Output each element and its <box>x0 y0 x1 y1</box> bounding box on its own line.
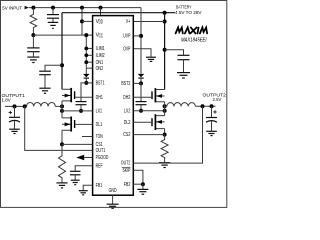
resistor R_CS2 (current sense) <box>161 135 168 163</box>
node: output2 cap tap <box>210 104 214 108</box>
capacitor C2 (5V bypass) <box>52 8 54 15</box>
node: VCC rail junction <box>84 33 88 37</box>
svg-text:DL1: DL1 <box>96 122 103 128</box>
svg-text:FB2: FB2 <box>124 182 131 188</box>
svg-text:V+: V+ <box>126 19 131 25</box>
svg-text:SKIP: SKIP <box>123 168 131 174</box>
wire DL1 <box>75 123 93 125</box>
wire OUT2 sense <box>133 106 202 163</box>
capacitor C_OUT1 (polarized) <box>14 106 16 117</box>
wire 5V to IC top <box>100 8 102 16</box>
resistor R_CS1 (current sense) <box>59 144 66 182</box>
node: UVP junction <box>139 34 143 38</box>
svg-text:PGOOD: PGOOD <box>96 155 109 161</box>
wire FB2 <box>133 183 143 185</box>
svg-text:FB1: FB1 <box>96 183 103 189</box>
svg-text:ON2: ON2 <box>96 66 104 72</box>
node: BST1 junction <box>84 81 88 85</box>
wire ILIM1 <box>86 47 92 49</box>
wire ILIM2 <box>86 54 92 56</box>
node: V+ junction <box>163 20 167 24</box>
wire 5V down to VDD/VCC <box>81 8 83 35</box>
wire FB1 to ground <box>83 185 92 190</box>
node: VDD junction <box>80 19 84 23</box>
capacitor C_OUT2 (polarized) <box>211 106 213 117</box>
node: OUT2 sense tap <box>201 104 205 108</box>
outer frame <box>1 1 227 208</box>
transistor Q2 (low-side, converter 1) <box>62 117 75 132</box>
transistor Q3 (high-side, converter 2) <box>152 88 165 102</box>
5V input arrow <box>25 6 29 10</box>
SKIP overline <box>122 166 131 168</box>
ground (R_CS2) <box>159 162 170 164</box>
wire BST1 <box>81 83 93 101</box>
node: R1 bottom / VCC wire <box>31 33 35 37</box>
rail: VCC/ILIM/ON vertical <box>85 35 87 74</box>
capacitor C_BST1 <box>76 101 87 103</box>
inductor L1 <box>5 105 27 107</box>
capacitor C_REF <box>70 170 81 172</box>
svg-text:MAX1845EEI: MAX1845EEI <box>181 37 207 43</box>
node: BST1 cap to LX1 <box>79 109 83 113</box>
PGOOD output arrow <box>76 155 84 161</box>
node: 5V rail / IC top feed <box>99 6 103 10</box>
capacitor C_IN1 <box>39 70 51 72</box>
ground (R_CS1) <box>56 182 67 184</box>
svg-text:REF: REF <box>96 163 103 169</box>
node: 5V rail / C2 junction <box>51 6 55 10</box>
node: battery cap 2 tap <box>163 48 167 52</box>
battery vertical right (V+ / converter 2 input) <box>164 13 166 90</box>
node: BST2 junction <box>139 81 143 85</box>
MAXIM logo <box>176 28 208 34</box>
wire CS2 <box>133 134 164 136</box>
wire DL2 <box>133 121 152 123</box>
svg-text:LX2: LX2 <box>124 108 131 114</box>
node: LX1 / inductor <box>60 104 64 108</box>
wire 5V down right side (UVP feed) <box>140 8 142 74</box>
svg-text:BATTERY: BATTERY <box>176 4 192 10</box>
wire to battery input cap (right) <box>165 50 184 55</box>
node: LX1 wire <box>60 109 64 113</box>
svg-text:DH2: DH2 <box>123 95 130 101</box>
ground (OVP) <box>146 56 156 58</box>
svg-text:CC: CC <box>99 33 104 39</box>
wire ON1 <box>86 61 92 63</box>
wire Q1-Q2 vertical <box>61 101 63 118</box>
svg-text:ILIM2: ILIM2 <box>96 53 105 59</box>
svg-text:BST2: BST2 <box>121 81 130 87</box>
node: LX2 / inductor <box>163 104 167 108</box>
wire ON2 <box>86 67 92 69</box>
wire SKIP to FB2 <box>133 170 143 184</box>
svg-text:DL2: DL2 <box>124 120 131 126</box>
svg-text:4.5V TO 28V: 4.5V TO 28V <box>175 10 202 16</box>
wire Q2 source to CS1 <box>61 130 63 144</box>
svg-text:DD: DD <box>99 20 104 26</box>
wire DH2 <box>133 96 152 98</box>
wire TON <box>82 136 93 138</box>
node: 5V rail / R1 junction <box>31 6 35 10</box>
wire OVP to ground <box>133 49 151 57</box>
diode D1 (BST1) <box>83 74 90 77</box>
svg-text:TON: TON <box>96 134 103 140</box>
wire VCC from R1 to IC <box>33 34 92 36</box>
battery rail <box>62 12 175 14</box>
node: OUT1 sense tap <box>23 104 27 108</box>
svg-text:1.8V: 1.8V <box>2 98 12 104</box>
ground (C_OUT2) <box>206 130 217 132</box>
IC U1 MAX1845EEI box <box>93 16 134 196</box>
ground (FB2) <box>137 188 148 190</box>
svg-text:OVP: OVP <box>123 46 131 52</box>
node: CS2 junction <box>163 133 167 137</box>
wire FB2 to ground <box>142 184 144 189</box>
capacitor C_BST2 <box>136 101 147 103</box>
transistor Q1 (high-side, converter 1) <box>62 88 75 102</box>
node: LX2 wire <box>163 109 167 113</box>
svg-text:GND: GND <box>109 188 117 194</box>
node: battery rail / V+ drop <box>163 11 167 15</box>
node: output1 cap tap <box>13 104 17 108</box>
wire BST2 <box>133 83 141 101</box>
svg-text:ILIM1: ILIM1 <box>96 46 105 52</box>
wire REF <box>75 166 92 171</box>
svg-text:OUT1: OUT1 <box>96 148 106 154</box>
ground (C_OUT1) <box>9 128 20 130</box>
svg-text:2.5V: 2.5V <box>213 97 223 103</box>
wire to battery input cap (left) <box>45 65 62 71</box>
wire V+ to IC <box>133 21 164 23</box>
resistor R1 (VCC filter) <box>30 8 37 35</box>
svg-text:OUT2: OUT2 <box>121 161 131 167</box>
inductor L2 <box>165 105 167 107</box>
wire VDD to IC <box>82 20 93 22</box>
ground (C_VCC) <box>27 56 39 58</box>
wire DH1 <box>75 96 93 98</box>
node: CS1 junction <box>60 142 64 146</box>
ground (FB1) <box>79 190 88 192</box>
wire LX1 <box>62 110 93 112</box>
diode D2 (BST2) <box>138 74 145 77</box>
battery vertical left (converter 1 input) <box>61 13 63 90</box>
node: BST2 cap to LX2 <box>139 109 143 113</box>
wire LX2 <box>133 110 164 112</box>
capacitor C_VCC <box>32 35 34 48</box>
wire UVP to IC <box>133 35 141 37</box>
5V input rail (top) <box>29 7 141 9</box>
ground (C_IN1) <box>39 87 50 89</box>
ground (GND pin) <box>107 203 119 205</box>
svg-text:BST1: BST1 <box>96 81 105 87</box>
svg-text:DH1: DH1 <box>96 95 103 101</box>
wire OUT1 sense <box>25 106 93 150</box>
ground (C2) <box>48 21 58 23</box>
capacitor C_IN2 <box>178 54 190 56</box>
node: battery cap 1 tap <box>60 63 64 67</box>
node: FB2/SKIP junction <box>141 182 145 186</box>
svg-text:UVP: UVP <box>123 34 131 40</box>
wire CS1 <box>62 143 93 145</box>
transistor Q4 (low-side, converter 2) <box>152 114 165 130</box>
wire GND pin <box>112 195 114 204</box>
svg-text:5V INPUT: 5V INPUT <box>2 6 22 12</box>
ground (C_IN2) <box>177 72 190 74</box>
wire Q4 source to CS2 <box>164 129 166 135</box>
wire Q3-Q4 vertical <box>164 102 166 116</box>
node: 5V rail / VDD drop <box>80 6 84 10</box>
svg-text:CS2: CS2 <box>123 132 130 138</box>
ground (C_REF) <box>71 179 80 181</box>
svg-text:LX1: LX1 <box>96 109 103 115</box>
